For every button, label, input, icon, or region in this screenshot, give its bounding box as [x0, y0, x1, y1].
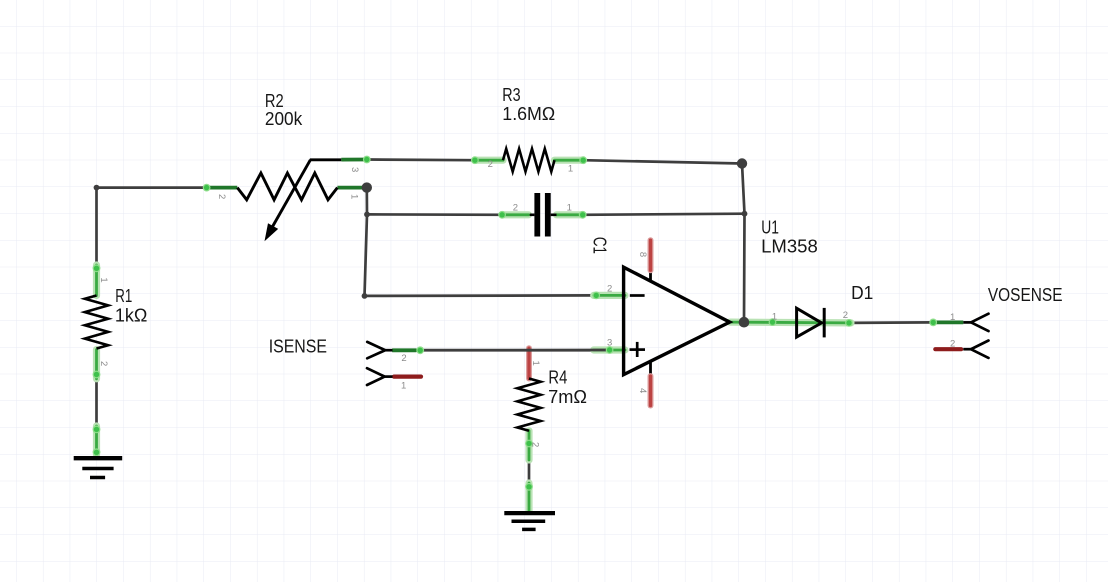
- pin number D1 pin2 number: [843, 310, 848, 321]
- node R1 pin2 green lead: [93, 350, 101, 379]
- node R4 ground green lead: [525, 483, 533, 511]
- svg-text:1: 1: [950, 312, 955, 323]
- node VOSENSE pin2 red lead: [935, 347, 961, 351]
- svg-text:ISENSE: ISENSE: [269, 336, 327, 356]
- pin number op-amp pin2 number: [607, 284, 612, 295]
- wire ISENSE to op-amp non-inverting input: [418, 349, 597, 352]
- pin number R3 pin1 number: [568, 164, 573, 175]
- svg-text:2: 2: [401, 353, 406, 364]
- node ISENSE pin1 red lead: [394, 375, 421, 379]
- svg-text:R2: R2: [265, 91, 284, 111]
- node C1 pin2 green: [498, 211, 528, 219]
- label D1: [851, 283, 873, 303]
- pin number op-amp pin1 number: [772, 312, 777, 323]
- resistor R3 zigzag: [503, 149, 555, 172]
- svg-text:4: 4: [637, 388, 648, 393]
- label ISENSE: [269, 336, 327, 356]
- connector ISENSE pin1 fork: [367, 368, 393, 385]
- pin number ISENSE pin2 number: [401, 353, 406, 364]
- capacitor C1 plates: [530, 193, 557, 237]
- node junction R2 pin1: [362, 182, 372, 192]
- svg-text:1: 1: [568, 164, 573, 175]
- pin number op-amp pin4 number (rotated): [637, 388, 648, 393]
- label R2 value: [265, 91, 303, 129]
- svg-text:1: 1: [772, 312, 777, 323]
- node junction feedback top: [737, 158, 747, 168]
- label R1 value: [115, 286, 147, 325]
- op-amp pin4 power stub: [649, 362, 652, 406]
- svg-text:1kΩ: 1kΩ: [115, 305, 147, 325]
- svg-text:R1: R1: [115, 286, 132, 306]
- svg-text:R4: R4: [548, 367, 567, 387]
- svg-text:2: 2: [488, 159, 493, 170]
- wire R2 pin3 to R3: [367, 158, 475, 161]
- wire R1 top vertical: [95, 188, 98, 296]
- op-amp minus sign: [630, 294, 645, 297]
- svg-text:C1: C1: [589, 237, 609, 254]
- resistor R1 zigzag: [85, 296, 108, 349]
- wire to C1 pin2: [367, 213, 502, 216]
- connector VOSENSE pin2 fork: [963, 341, 988, 358]
- svg-text:200k: 200k: [265, 109, 303, 129]
- node junction inverting bend: [362, 293, 368, 299]
- svg-text:LM358: LM358: [761, 237, 818, 257]
- svg-text:8: 8: [637, 252, 648, 257]
- wire R1-to-R2 horizontal: [97, 186, 207, 189]
- node R4 pin2 green lead: [525, 431, 533, 460]
- svg-text:1: 1: [567, 203, 572, 214]
- op-amp plus sign: [630, 342, 646, 357]
- svg-text:D1: D1: [851, 283, 873, 303]
- svg-text:7mΩ: 7mΩ: [548, 387, 587, 407]
- pin number VOSENSE pin1 number: [950, 312, 955, 323]
- node C1 pin1 green: [557, 211, 587, 219]
- node junction op-amp output: [739, 317, 750, 328]
- node R4 pin1 red lead: [526, 348, 532, 378]
- label C1 rotated: [589, 237, 609, 254]
- pin number C1 pin1 number: [567, 203, 572, 214]
- ground symbol left: [74, 458, 123, 477]
- label R4 value: [548, 367, 587, 407]
- resistor R2 (rheostat) zigzag: [237, 173, 337, 200]
- pin number R2 pin2 number (rotated): [216, 194, 227, 199]
- pin number VOSENSE pin2 number: [950, 339, 955, 350]
- svg-text:2: 2: [529, 442, 540, 447]
- op-amp pin8 power stub: [649, 240, 652, 281]
- node junction C1 left tap: [364, 212, 370, 218]
- node R3 pin1 green: [555, 156, 588, 164]
- wire R3 pin1 to node: [583, 160, 742, 163]
- node op-amp pin2 green: [592, 292, 625, 300]
- svg-text:1: 1: [349, 194, 360, 199]
- pin number R1 pin1 number (rotated): [98, 277, 109, 282]
- svg-text:2: 2: [843, 310, 848, 321]
- wire to op-amp inverting input: [365, 294, 597, 297]
- wire D1 to VOSENSE: [849, 321, 933, 324]
- pin number C1 pin2 number: [513, 203, 518, 214]
- pin number op-amp pin8 number (rotated): [637, 252, 648, 257]
- diode D1: [797, 308, 825, 338]
- svg-text:2: 2: [607, 284, 612, 295]
- svg-text:U1: U1: [761, 217, 779, 237]
- wire C1 pin1 to node: [583, 214, 745, 215]
- svg-text:1.6MΩ: 1.6MΩ: [502, 104, 555, 124]
- svg-text:1: 1: [530, 361, 541, 366]
- pin number R4 pin1 number (rotated): [530, 361, 541, 366]
- pin number R4 pin2 number (rotated): [529, 442, 540, 447]
- label VOSENSE: [988, 285, 1063, 305]
- pin number R3 pin2 number: [488, 159, 493, 170]
- pin number R2 pin3 number (rotated): [349, 167, 360, 172]
- node R2 pin1 green: [337, 186, 363, 190]
- label U1 value: [761, 217, 818, 256]
- op-amp U1 triangle: [624, 267, 730, 374]
- svg-text:3: 3: [349, 167, 360, 172]
- svg-text:3: 3: [607, 337, 612, 348]
- wire node vertical to output: [742, 164, 745, 323]
- node R3 pin2 green: [471, 156, 503, 164]
- label R3 value: [502, 85, 555, 124]
- node VOSENSE pin1 green: [929, 319, 963, 327]
- wire R2 pin1 down: [365, 188, 368, 296]
- pin number R2 pin1 number (rotated): [349, 194, 360, 199]
- svg-text:2: 2: [950, 339, 955, 350]
- wire R4 to ground: [528, 431, 531, 511]
- resistor R4 zigzag: [517, 379, 540, 431]
- svg-text:VOSENSE: VOSENSE: [988, 285, 1063, 305]
- pin number op-amp pin3 number: [607, 337, 612, 348]
- resistor R2 wiper arrow: [265, 160, 342, 242]
- node R2 pin2 green: [203, 184, 238, 192]
- pin number R1 pin2 number (rotated): [98, 361, 109, 366]
- svg-text:2: 2: [98, 361, 109, 366]
- node R1 ground green lead: [93, 426, 101, 457]
- svg-text:1: 1: [98, 277, 109, 282]
- node junction R1 corner: [94, 185, 100, 191]
- svg-text:R3: R3: [502, 85, 520, 105]
- node ISENSE pin2 green: [392, 346, 424, 354]
- svg-text:1: 1: [401, 380, 406, 391]
- node R2 pin3 green: [341, 156, 370, 164]
- ground symbol bottom: [504, 513, 555, 529]
- node junction C1 right tap: [742, 211, 748, 217]
- connector VOSENSE pin1 fork: [963, 314, 988, 331]
- node op-amp pin3 green: [420, 346, 625, 354]
- connector ISENSE pin2 fork: [367, 342, 392, 358]
- node output net green: [730, 318, 853, 327]
- wire R1 bottom to ground: [95, 349, 98, 456]
- node R1 pin1 green lead: [93, 264, 101, 295]
- svg-text:2: 2: [216, 194, 227, 199]
- svg-text:2: 2: [513, 203, 518, 214]
- pin number ISENSE pin1 number: [401, 380, 406, 391]
